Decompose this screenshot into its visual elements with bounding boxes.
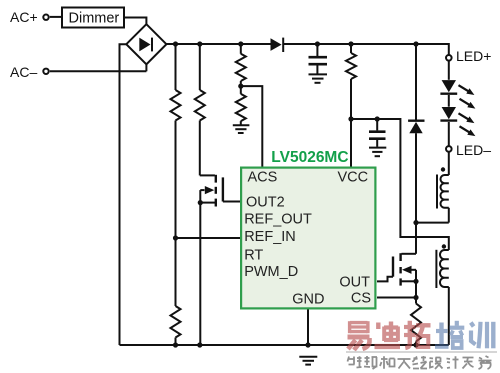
label LED+ — [456, 48, 491, 64]
watermark char xun — [471, 322, 494, 349]
resistor R7 — [411, 304, 421, 346]
svg-text:RT: RT — [244, 248, 263, 264]
node VCC — [348, 116, 379, 121]
resistor R4 — [236, 94, 246, 125]
watermark char yi — [348, 321, 370, 350]
node REF_IN tap — [173, 235, 178, 240]
LED LED1 — [440, 80, 457, 107]
svg-text:ACS: ACS — [248, 170, 278, 186]
pin label REF_OUT — [244, 212, 312, 228]
wire LED+ to LED1 — [448, 61, 450, 80]
wire bridge left to bottom rail — [120, 44, 127, 345]
pin label REF_IN — [244, 229, 296, 245]
watermark tagline emboss — [349, 357, 493, 370]
pin label GND — [292, 292, 324, 308]
svg-text:LED–: LED– — [456, 142, 491, 158]
watermark char tuo — [404, 321, 431, 348]
terminal LED+ — [446, 55, 452, 61]
ground earth — [299, 357, 317, 365]
wire AC- to bridge bottom — [50, 64, 147, 71]
svg-text:GND: GND — [292, 292, 324, 308]
dimmer box — [62, 8, 124, 28]
label AC+ — [10, 9, 38, 25]
ground below C2 — [369, 148, 386, 157]
bridge rectifier BR1 — [126, 24, 166, 64]
wire winding return — [416, 222, 449, 224]
wire bottom rail — [120, 344, 449, 346]
wire GND pin — [307, 310, 309, 346]
ground below C1 — [309, 74, 328, 82]
terminal LED- — [446, 146, 452, 152]
svg-text:REF_IN: REF_IN — [244, 229, 296, 245]
wire top rail left — [166, 43, 270, 45]
capacitor C1 — [309, 44, 328, 74]
watermark char di — [375, 322, 401, 347]
svg-text:Dimmer: Dimmer — [69, 10, 120, 26]
wire ACS tap to IC — [241, 86, 262, 166]
wire LED- to winding L1 — [448, 152, 450, 175]
watermark tagline — [348, 356, 492, 369]
svg-text:CS: CS — [351, 291, 371, 307]
watermark char pei — [435, 321, 464, 348]
watermark divider — [346, 351, 497, 353]
LED LED2 — [440, 107, 457, 146]
terminal AC+ — [43, 15, 48, 20]
node ACS tap — [238, 84, 243, 89]
pin label CS — [351, 291, 371, 307]
resistor R5 — [346, 44, 356, 167]
resistor R2 — [195, 44, 205, 175]
label AC- — [10, 64, 37, 80]
resistor R6 — [171, 306, 181, 345]
pin label VCC — [338, 170, 369, 186]
wire CS — [377, 297, 416, 299]
svg-text:OUT2: OUT2 — [246, 195, 285, 211]
pin label ACS — [248, 170, 278, 186]
svg-text:OUT: OUT — [339, 274, 370, 290]
diode D2 — [408, 44, 424, 254]
wire top rail right — [283, 44, 449, 55]
winding L2 — [436, 244, 448, 345]
wire REF_IN — [176, 237, 241, 239]
ground below R4 — [233, 125, 250, 133]
svg-text:AC+: AC+ — [10, 9, 38, 25]
IC U1 LV5026MC — [241, 168, 375, 309]
svg-text:AC–: AC– — [10, 64, 37, 80]
transistor Q2 — [377, 253, 419, 303]
node dots bottom rail — [173, 342, 419, 347]
winding L1 — [437, 167, 449, 222]
pin label PWM_D — [244, 264, 298, 280]
node drain top — [413, 220, 418, 225]
svg-text:LV5026MC: LV5026MC — [271, 149, 348, 166]
pin label RT — [244, 248, 263, 264]
transistor Q1 — [198, 175, 240, 345]
svg-text:REF_OUT: REF_OUT — [244, 212, 312, 228]
diode D1 — [271, 38, 284, 52]
terminal AC- — [43, 69, 48, 74]
wire dimmer to bridge top — [124, 18, 146, 25]
LED emission arrows — [459, 85, 476, 136]
resistor R3 — [236, 44, 246, 94]
pin label OUT — [339, 274, 370, 290]
svg-text:PWM_D: PWM_D — [244, 264, 298, 280]
svg-text:LED+: LED+ — [456, 48, 491, 64]
wire AC+ to dimmer — [50, 16, 62, 18]
label LV5026MC — [271, 149, 348, 166]
node CS — [413, 295, 418, 300]
label LED- — [456, 142, 491, 158]
resistor R1 — [171, 44, 181, 306]
wire VCC to aux winding — [351, 119, 449, 250]
node dots top rail — [173, 41, 419, 46]
svg-text:VCC: VCC — [338, 170, 369, 186]
WATERMARK — [348, 321, 431, 350]
capacitor C2 — [369, 119, 386, 147]
pin label OUT2 — [246, 195, 285, 211]
